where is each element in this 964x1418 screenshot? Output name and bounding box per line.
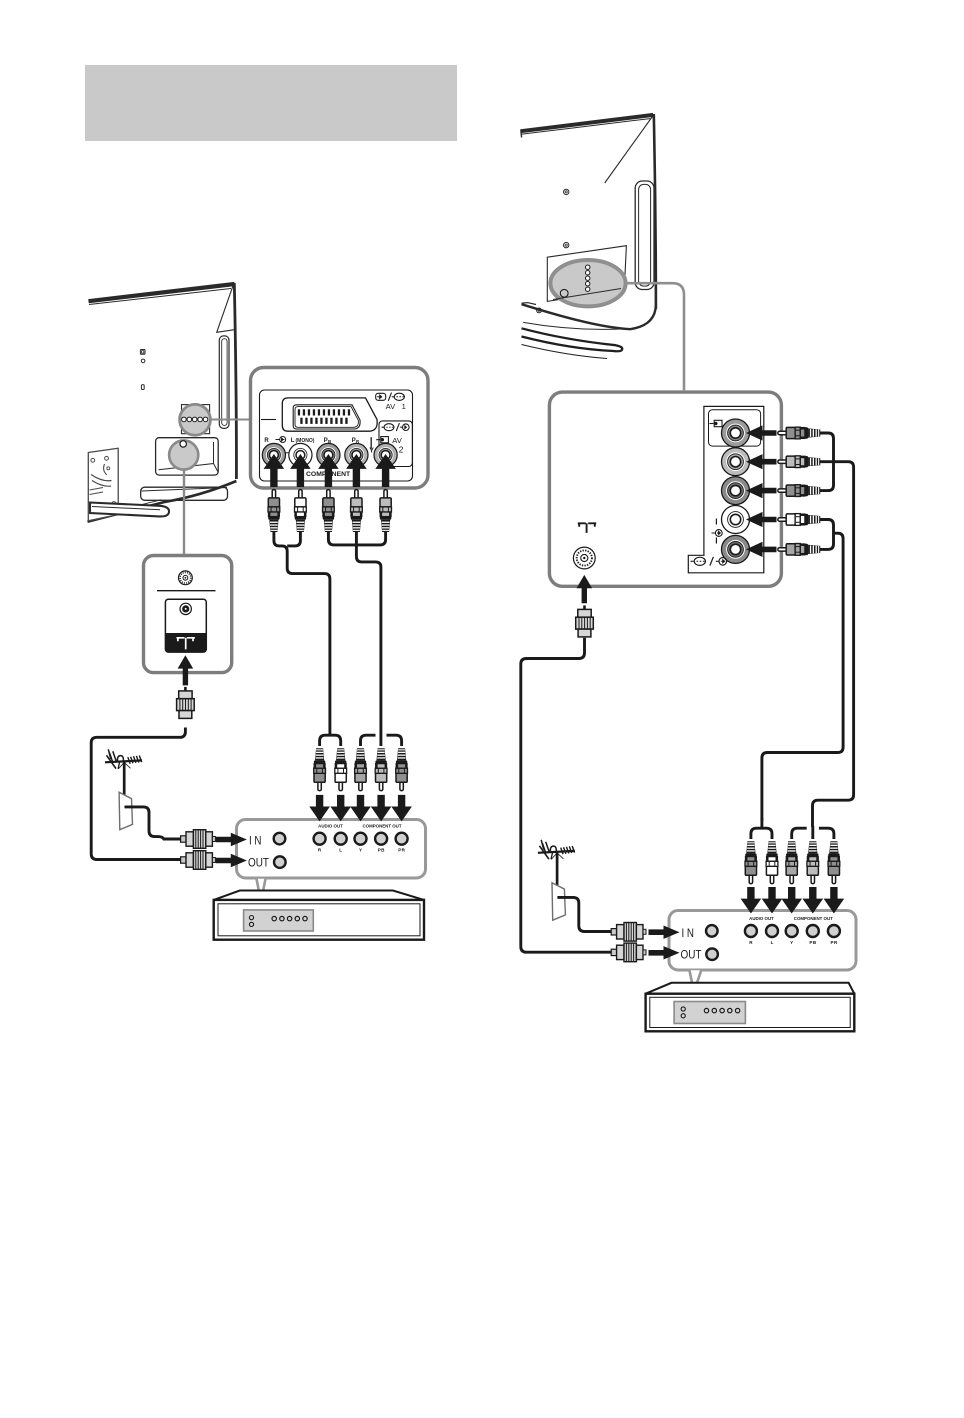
AV2 section box [371,421,412,467]
left aerial antenna glyph [105,749,142,795]
U cable joining plugs 4 and 5 with branch [762,520,843,821]
right AV detail panel [549,392,781,586]
RCA plug PR into panel [351,490,363,532]
right TV callout oval on jacks [550,260,625,306]
coax connector into VCR IN [181,830,216,849]
jack R [262,443,285,466]
right TV rear outline [521,114,656,309]
right VCR/set-top box device [646,983,855,1032]
coax connector into VCR OUT [181,851,216,870]
arrow into right IN [649,926,680,939]
jack row labels [264,438,360,444]
aerial coax plug to TV [177,687,195,719]
svg-text:1: 1 [402,402,406,411]
AV1 label icons [376,393,405,401]
right VCR connection panel [669,911,856,971]
lower RCA plug L to VCR [335,748,347,790]
arrow into antenna socket [178,655,194,685]
left TV stand bracket [88,448,118,521]
right TV stand base [522,328,623,358]
right callout line to panel [626,283,684,390]
left TV callout line down to antenna panel [183,470,185,554]
svg-text:OUT: OUT [248,856,270,870]
left TV callout line to AV panel [210,419,252,421]
left TV base bar [90,503,169,517]
jack PR [345,443,368,466]
right jack component [722,535,750,563]
component trio cable from plugs Y/PB/PR down to VCR [328,532,401,747]
left TV antenna jack highlight circle [169,440,198,469]
RCA plug R into panel [268,490,280,532]
right panel antenna symbol [578,523,596,533]
lower RCA plug R to VCR [314,748,326,790]
RCA plug L into panel [295,490,307,532]
left antenna socket module [165,599,206,652]
left TV speaker shelf [141,487,228,500]
lower RCA plug PB to VCR [375,748,387,790]
svg-text:OUT: OUT [681,948,703,962]
svg-text:L: L [291,438,295,444]
right TV bottom bezel [522,303,656,330]
bottom icon row of right panel [691,557,727,566]
left VCR callout tail [257,879,266,902]
right lower cable fanouts [751,818,834,839]
lower RCA plug Y to VCR [355,748,367,790]
right TV jack plate [547,246,626,302]
lower right RCA plugs [745,841,757,883]
svg-text:COMPONENT OUT: COMPONENT OUT [794,916,833,921]
svg-text:P R: P R [398,848,405,853]
arrow into IN [216,833,247,846]
audio pair cable from plugs R/L down to VCR [274,532,341,747]
down arrows into right VCR [741,887,845,914]
svg-text:I N: I N [249,833,262,847]
right jack Y white [722,506,750,534]
dashed separator + mini icon [712,519,723,544]
svg-text:P B: P B [809,940,816,945]
video input mini icon [710,420,723,426]
svg-text:AUDIO OUT: AUDIO OUT [749,916,774,921]
svg-text:2: 2 [399,444,404,454]
arrow into OUT [216,854,247,867]
left TV rear outline [88,283,237,522]
jack L(MONO) [289,443,312,466]
AV2 icon row [382,423,410,431]
svg-text:P R: P R [831,940,838,945]
svg-text:I N: I N [682,926,695,940]
svg-text:AV: AV [386,402,397,411]
AV2 input icon + text [369,436,404,455]
SCART socket AV1 [282,398,377,431]
svg-text:Y: Y [359,848,362,853]
right jack AV2 video [722,419,750,447]
AV1 text [386,402,406,411]
right VCR callout tail [689,970,701,992]
lower RCA plug PR to VCR [396,748,408,790]
right coax connector into OUT [611,943,646,962]
down arrows into VCR jacks [309,795,412,822]
jack PB [317,443,340,466]
right panel antenna jack [573,547,595,569]
left antenna input panel [144,556,232,673]
left TV jack plate [182,405,210,434]
svg-text:R: R [264,438,269,444]
RCA plug PB into panel [323,490,335,532]
right coax cable from TV plug to VCR OUT [521,638,611,953]
left TV callout circle on AV jacks [180,404,211,435]
arrow into right OUT [649,946,680,959]
COMPONENT text [306,471,351,478]
svg-text:COMPONENT OUT: COMPONENT OUT [362,823,401,828]
connector line between R and L jacks [285,452,293,454]
svg-text:AUDIO OUT: AUDIO OUT [318,823,343,828]
svg-text:Y: Y [790,940,793,945]
svg-text:P B: P B [378,848,385,853]
cable from plug 2 down right side [813,462,854,827]
arrows into jacks [264,454,396,487]
svg-text:L: L [771,940,774,945]
right horizontal RCA plugs [778,427,820,439]
svg-text:L: L [339,848,342,853]
arrow into right antenna jack [577,575,593,603]
right aerial coax plug [576,605,594,637]
R input mini icon [276,437,286,443]
arrows into right jacks [746,425,777,557]
coax cable from TV plug to VCR OUT [91,728,185,860]
left VCR connection panel [237,820,426,879]
right jack audio L [722,448,750,476]
left AV detail panel [251,368,429,489]
right antenna wall plate [552,883,611,932]
left TV recessed connector bay [156,438,219,475]
RCA plug Y into panel [380,490,392,532]
right aerial antenna glyph [538,840,575,886]
right jack audio R [722,477,750,505]
U cable joining plugs 1 and 3 [820,433,834,491]
right coax connector into IN [611,923,646,942]
jack Y/AV2 [374,443,397,466]
title placeholder gray box [85,65,457,141]
left antenna wall plate [119,792,180,839]
left VCR/set-top box device [214,891,424,940]
